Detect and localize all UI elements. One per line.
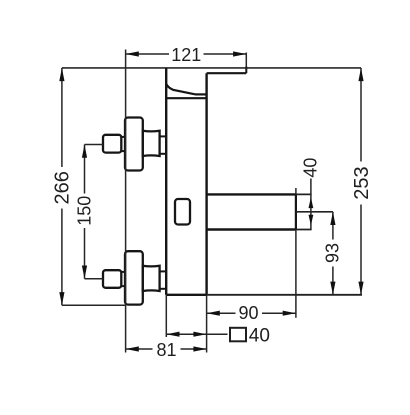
dim 40 leaders [296,193,312,195]
dim 81 line [126,348,153,350]
top handle flange [125,118,143,171]
svg-text:93: 93 [323,243,343,263]
dim 121 line [126,53,169,55]
spout bottom edge [207,228,296,230]
svg-text:266: 266 [51,171,73,204]
dim sq40 leader [207,333,228,335]
bottom handle flange [125,251,143,304]
faucet body left edge [165,68,167,295]
dim 40 line [310,179,312,230]
wall reference line [62,67,361,69]
dim 121 extension right [245,53,247,68]
dim 93 line [332,212,334,240]
bottom handle knob [103,270,121,288]
dim 150 arrows [82,145,87,158]
svg-text:253: 253 [351,166,373,199]
dim 253 arrows [358,68,363,81]
dim sq40 line [166,333,206,335]
dim 150 top leader [85,144,104,146]
bottom handle neck lines [121,271,126,273]
diverter button [175,199,190,225]
dim 40 arrows [309,197,314,208]
dim 93 arrows [330,212,335,225]
top handle knob [103,135,121,153]
dim 90 arrows [207,311,220,316]
spout centre line / 93 top leader [296,211,333,213]
bottom reference line [207,294,362,296]
svg-text:150: 150 [74,196,94,226]
bottom handle connector lines [160,270,167,272]
body top step [207,72,247,74]
dim 90 line [207,312,236,314]
dim 253 line [360,68,362,162]
dim 81 arrows [126,346,139,351]
step corner vertical [245,67,247,74]
dim sq40 arrows [166,332,179,337]
spout root slope [166,84,195,94]
dim 150 line [84,145,86,194]
dim 266 bottom leader [62,304,126,306]
slope shoulder line [195,93,207,95]
svg-text:81: 81 [156,340,176,360]
bottom handle stem [143,266,160,291]
top handle stem [143,131,160,156]
svg-text:90: 90 [238,303,258,323]
spout top edge [207,193,296,195]
right extension (body right, shared by 90 / sq40 / 81) [206,295,208,353]
faucet body right edge [205,73,207,295]
dim 121 extension left [125,50,127,353]
dim 266 line [61,68,63,167]
svg-text:40: 40 [301,158,321,178]
svg-text:121: 121 [171,45,201,65]
svg-text:40: 40 [249,326,270,347]
dim sq40 square symbol [230,328,246,342]
dim 150 bottom leader [85,278,104,280]
dim sq40 left extension [165,295,167,337]
top handle neck lines [121,136,126,138]
spout tip face / 90-dim right extension [295,188,297,318]
body bottom [166,294,206,296]
body joint line [166,97,206,99]
dim 266 arrows [59,68,64,81]
top handle connector lines [160,135,167,137]
dim 121 arrows [126,51,139,56]
